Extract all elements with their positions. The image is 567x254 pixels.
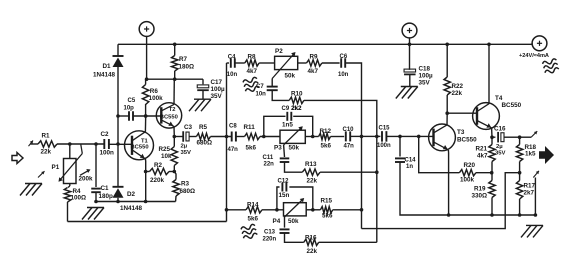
svg-text:35V: 35V (211, 93, 223, 100)
transistor T2 (156, 103, 181, 128)
wire top rail (118, 43, 532, 45)
svg-text:R5: R5 (199, 124, 208, 131)
svg-text:C14: C14 (405, 157, 417, 163)
junction supply 2 (408, 43, 412, 47)
svg-text:1N4148: 1N4148 (120, 205, 143, 212)
wire P3 to R12 (305, 136, 318, 138)
input ground (25, 183, 42, 185)
P4 wiper to C13 (284, 216, 286, 228)
resistor R18 (516, 145, 522, 162)
svg-text:D1: D1 (103, 63, 112, 70)
resistor R5 (196, 133, 210, 139)
wire C6 to bus A (345, 63, 361, 136)
wire C5 left (118, 115, 129, 117)
wire C5 right to T2 base (133, 115, 162, 117)
wire input to R1 (31, 143, 39, 145)
wavy mark other channel (output) (542, 58, 559, 74)
svg-text:100µ: 100µ (419, 72, 434, 79)
P2 wiper arrow (272, 54, 294, 79)
capacitor C5 (128, 111, 130, 121)
svg-text:C15: C15 (379, 125, 391, 131)
wire rail corner to D1 (117, 44, 119, 56)
wire R11 to P3 (260, 136, 280, 138)
svg-text:22k: 22k (41, 149, 52, 156)
resistor R7 (172, 56, 178, 72)
resistor R6 (142, 85, 148, 105)
svg-text:BC550: BC550 (160, 114, 178, 120)
svg-text:47n: 47n (344, 143, 355, 149)
svg-text:P4: P4 (273, 218, 281, 225)
wire bus A down (361, 136, 363, 228)
ground at output (526, 224, 543, 226)
svg-text:220n: 220n (263, 236, 277, 242)
output signal tick (532, 131, 538, 137)
svg-text:R14: R14 (247, 201, 259, 208)
wire bus B down (376, 136, 378, 242)
svg-text:100n: 100n (377, 143, 391, 149)
junction T3 emitter bottom (447, 213, 451, 217)
junction R19 bottom (490, 213, 494, 217)
svg-text:100Ω: 100Ω (71, 195, 87, 202)
wire C8 to R11 (236, 136, 245, 138)
svg-text:2k7: 2k7 (524, 189, 535, 196)
svg-text:R11: R11 (244, 124, 256, 131)
wire R7 bottom to T2 collector (174, 71, 176, 79)
capacitor C12 loop (277, 187, 280, 210)
wire R4 to bottom feedback rail (67, 202, 69, 222)
wire C3 to R5 (189, 136, 196, 138)
capacitor C1 lead (95, 144, 97, 187)
svg-text:BC550: BC550 (457, 136, 477, 143)
capacitor C12 (281, 183, 283, 192)
svg-text:5k6: 5k6 (322, 212, 333, 219)
junction tone network feed (225, 135, 229, 139)
resistor R11 (245, 133, 261, 139)
capacitor C15 (381, 131, 383, 142)
junction T1 emitter rail (144, 200, 148, 204)
svg-text:T2: T2 (169, 107, 176, 113)
resistor R22 (444, 77, 450, 95)
svg-text:C6: C6 (340, 54, 348, 60)
svg-text:1n5: 1n5 (282, 121, 293, 128)
wire feed to R14 (227, 209, 247, 211)
wire T3 emitter (447, 150, 449, 215)
wire C7 to R10 (272, 90, 289, 100)
power terminal circle 2 (402, 23, 417, 38)
svg-text:R9: R9 (310, 53, 319, 60)
wire R2 right (169, 171, 174, 173)
svg-text:R8: R8 (248, 53, 257, 60)
junction R21/R20/R19 (490, 171, 494, 175)
wire R15 to bus A (333, 209, 362, 211)
wire output bottom rail (449, 214, 536, 216)
resistor R19 (489, 181, 495, 198)
svg-text:100n: 100n (100, 150, 115, 157)
wavy mark other channel (treble) (243, 77, 260, 93)
resistor R1 (38, 141, 57, 147)
input signal screen tick (29, 141, 34, 147)
capacitor C9 (286, 112, 288, 121)
svg-text:R7: R7 (179, 56, 188, 63)
wire feedback return (362, 173, 521, 229)
wire T2 collector (173, 79, 175, 104)
svg-text:P1: P1 (52, 164, 60, 171)
capacitor C2 (103, 139, 105, 149)
svg-text:C3: C3 (184, 124, 193, 131)
resistor R8 (245, 60, 259, 66)
wire R10 to bus B (304, 100, 377, 136)
wire R7 top to rail (174, 44, 176, 55)
junction bus B R13 (375, 170, 379, 174)
svg-text:C2: C2 (101, 131, 110, 138)
wire C11 to R13 (285, 162, 303, 172)
wire C17 branch (175, 78, 203, 80)
wire R5 to feed node (211, 136, 232, 138)
svg-text:R12: R12 (320, 128, 332, 135)
svg-text:C11: C11 (263, 155, 274, 161)
junction R22 rail (445, 43, 449, 47)
svg-text:15n: 15n (279, 192, 290, 199)
wire feed node vertical (226, 63, 228, 222)
svg-text:C13: C13 (264, 229, 276, 235)
svg-text:4k7: 4k7 (308, 68, 319, 75)
resistor R9 (307, 60, 322, 66)
svg-text:180p: 180p (99, 193, 114, 200)
svg-text:C1: C1 (101, 185, 110, 192)
wire feed to C4 (227, 62, 230, 64)
junction R20 riser (417, 135, 421, 139)
wire R6 bottom (145, 104, 147, 116)
svg-text:4k7: 4k7 (247, 68, 258, 75)
svg-text:680Ω: 680Ω (197, 140, 213, 147)
wire C10 to bus (350, 135, 361, 137)
svg-text:50k: 50k (285, 73, 296, 80)
capacitor C6 (340, 58, 342, 68)
svg-text:R22: R22 (452, 83, 464, 90)
svg-text:220k: 220k (150, 177, 165, 184)
svg-text:680Ω: 680Ω (180, 188, 196, 195)
wire diode chain to base wire (117, 116, 119, 144)
wire R18 bottom (519, 162, 521, 173)
capacitor C10 (345, 131, 347, 141)
svg-text:R20: R20 (464, 162, 476, 169)
output screen tick (533, 171, 539, 178)
capacitor C17 (197, 85, 209, 88)
input screen tick to ground (38, 171, 45, 177)
wire R19 top (491, 173, 493, 181)
wire C16 to R18 node (504, 136, 519, 138)
wire C18 to ground (409, 74, 411, 86)
svg-text:C4: C4 (228, 54, 236, 60)
junction C1 top (94, 142, 98, 146)
svg-text:R17: R17 (524, 182, 536, 189)
capacitor C14 (395, 157, 405, 159)
svg-text:47n: 47n (228, 147, 239, 153)
svg-text:10n: 10n (256, 92, 267, 98)
svg-text:T4: T4 (495, 95, 503, 102)
svg-text:C10: C10 (343, 127, 355, 133)
potentiometer P3 (280, 130, 305, 143)
svg-text:5k6: 5k6 (246, 144, 257, 151)
capacitor C8 (231, 132, 233, 142)
junction P1 top (68, 142, 72, 146)
wire R20 to divider (476, 172, 492, 174)
ground at C18 (401, 86, 418, 88)
svg-text:R2: R2 (154, 162, 163, 169)
junction C12 loop right (311, 208, 315, 212)
wire T2 emitter (173, 126, 175, 136)
wire R3 top (174, 172, 176, 180)
svg-text:P3: P3 (274, 144, 282, 151)
svg-text:BC550: BC550 (131, 144, 149, 150)
svg-text:22k: 22k (307, 248, 318, 254)
input arrow (signal in) (12, 153, 23, 164)
P4 wiper arrow (284, 199, 303, 217)
svg-text:1n: 1n (406, 164, 413, 170)
output arrow (539, 146, 554, 164)
wire supply circle down (crosses rail) (146, 36, 148, 79)
wire R18 top (519, 137, 521, 144)
capacitor C7 (267, 86, 278, 88)
junction C12 loop left (275, 208, 279, 212)
svg-text:R13: R13 (305, 161, 317, 168)
svg-text:5k6: 5k6 (248, 215, 259, 222)
transistor T3 (429, 124, 456, 151)
capacitor C11 (280, 157, 290, 159)
wire rail to output terminal (531, 43, 533, 44)
wire R22 top to rail (446, 44, 448, 77)
wire output signal (520, 136, 532, 138)
wire R9 to C6 (322, 62, 340, 64)
svg-text:1N4148: 1N4148 (93, 72, 116, 79)
svg-text:R19: R19 (474, 185, 486, 192)
transistor T4 (473, 103, 500, 130)
wire P1 to R4 (69, 184, 71, 187)
wire D1 to C5 node (117, 67, 119, 116)
junction R2 emitter line (144, 170, 148, 174)
junction D1/C5 (116, 114, 120, 118)
capacitor C3 (electrolytic) (182, 131, 184, 142)
capacitor C16 (electrolytic) (497, 132, 499, 143)
wire bus to C15 (377, 135, 381, 137)
junction feed R14 (225, 208, 229, 212)
junction R17 bottom (518, 213, 522, 217)
junction bus A R15 (360, 208, 364, 212)
capacitor C18 (404, 69, 416, 72)
svg-text:100k: 100k (149, 95, 164, 102)
wire C18 lead (409, 44, 411, 70)
output terminal circle (532, 36, 547, 51)
svg-text:BC550: BC550 (502, 102, 522, 109)
svg-text:330Ω: 330Ω (472, 192, 488, 199)
diode D2 (113, 186, 124, 188)
potentiometer P2 (275, 56, 298, 69)
junction T4 collector rail (487, 43, 491, 47)
junction C1 bottom / ground (94, 200, 98, 204)
ground at C1 (87, 207, 104, 209)
wire supply 2 to rail (409, 38, 411, 44)
resistor R16 (304, 239, 319, 245)
svg-text:C8: C8 (229, 124, 237, 130)
svg-text:P2: P2 (275, 48, 283, 55)
wire C4 to R8 (235, 62, 245, 64)
diode D1 (113, 55, 124, 57)
wire C14 lead (399, 136, 401, 156)
svg-text:2µ: 2µ (181, 144, 188, 150)
svg-text:R25: R25 (159, 146, 171, 153)
svg-text:4k7: 4k7 (477, 152, 488, 159)
wire R8 to P2 (259, 62, 275, 64)
wire C14 to bottom rail (400, 162, 449, 215)
junction R6 base wire (144, 114, 148, 118)
wire T4 emitter (492, 128, 496, 137)
wire R6 top to supply node (145, 79, 147, 84)
wire T4 collector (488, 44, 490, 104)
resistor R13 (302, 169, 320, 175)
junction C9 loop left (262, 135, 266, 139)
wire C1 to node wire (95, 192, 97, 201)
svg-text:1k5: 1k5 (525, 151, 536, 158)
junction T3 coll / T4 base (445, 111, 449, 115)
svg-text:200k: 200k (79, 176, 94, 183)
svg-text:+24V/≈4mA: +24V/≈4mA (519, 53, 549, 59)
wire T3 collector (446, 113, 448, 125)
output screen line (534, 178, 536, 216)
svg-text:C18: C18 (419, 65, 431, 72)
svg-text:C5: C5 (128, 98, 136, 104)
capacitor C1 (91, 188, 101, 190)
junction R18/R17 (518, 171, 522, 175)
svg-text:2µ: 2µ (496, 144, 503, 150)
resistor R15 (320, 207, 332, 213)
junction C14 tap (398, 135, 402, 139)
svg-text:22n: 22n (264, 161, 275, 167)
wire C2 to T1 base (109, 143, 132, 145)
resistor R14 (246, 207, 262, 213)
wire R21 bottom (491, 162, 493, 173)
svg-text:35V: 35V (419, 79, 431, 86)
wire R19 bottom (491, 198, 493, 216)
wavy mark other channel (bass) (241, 224, 258, 240)
svg-text:C16: C16 (494, 125, 506, 132)
junction T4 emitter / R21 (490, 135, 494, 139)
junction output ground (534, 213, 538, 217)
wire R1 to C2/T1 base (57, 143, 104, 145)
resistor R2 (150, 168, 170, 174)
wire base wire to D2 (117, 144, 119, 187)
wire T1 emitter rail (96, 201, 176, 203)
svg-text:C9: C9 (282, 106, 290, 112)
wire D2 to emitter rail (117, 198, 119, 202)
wire R17 top (519, 173, 521, 181)
capacitor C13 (280, 228, 290, 230)
resistor R4 (64, 188, 70, 203)
svg-text:35V: 35V (495, 150, 506, 156)
svg-text:C17: C17 (211, 79, 223, 86)
P3 wiper arrow (284, 128, 302, 145)
svg-text:5k6: 5k6 (321, 142, 332, 149)
svg-text:R16: R16 (305, 234, 317, 241)
power terminal circle 1 (139, 22, 154, 37)
wire R2 left (146, 171, 150, 173)
wire T4 base (447, 112, 477, 114)
wire R20 riser (419, 136, 460, 172)
svg-text:R1: R1 (42, 133, 51, 140)
wire T1 emitter (144, 159, 146, 202)
junction T2 emitter / C3 (173, 135, 177, 139)
ground at C17 (194, 98, 211, 100)
wire bus A to B (362, 135, 377, 137)
svg-text:D2: D2 (127, 191, 136, 198)
svg-text:50k: 50k (288, 218, 299, 225)
wire R16 to bus B (319, 241, 377, 243)
junction C9 loop right (311, 135, 315, 139)
wire R14 to P4 (262, 209, 284, 211)
capacitor C4 (230, 58, 232, 68)
wire C13 to R16 (285, 233, 304, 242)
svg-text:100k: 100k (460, 176, 475, 183)
junction D2 bottom (116, 200, 120, 204)
wire R13 to bus B (320, 171, 377, 173)
potentiometer P4 (284, 203, 307, 216)
wire C17 to ground (202, 90, 204, 99)
wire R12 to C10 (331, 136, 345, 138)
svg-text:R15: R15 (321, 197, 333, 204)
junction R18 top (518, 135, 522, 139)
junction R25/R2/R3 (173, 170, 177, 174)
resistor R17 (516, 181, 522, 200)
potentiometer P1 lead (69, 144, 71, 159)
svg-text:2k2: 2k2 (292, 106, 303, 112)
svg-text:22k: 22k (452, 90, 463, 97)
junction T2 collector node (173, 77, 177, 81)
svg-text:180Ω: 180Ω (179, 63, 195, 70)
svg-text:10k: 10k (161, 153, 172, 160)
svg-text:C12: C12 (278, 178, 290, 184)
wire R17 bottom (519, 199, 521, 215)
wire C3 left (174, 136, 183, 138)
resistor R20 (459, 170, 476, 176)
wire R21 top (491, 137, 493, 144)
junction R7 rail (173, 43, 177, 47)
P1 adjust mark (86, 169, 90, 173)
svg-text:R10: R10 (291, 90, 303, 97)
wire R22 bottom (446, 95, 448, 113)
capacitor C9 loop (264, 116, 286, 136)
junction T1 collector (144, 114, 148, 118)
wire P2 to R9 (298, 62, 307, 64)
resistor R10 (289, 97, 304, 103)
resistor R12 (319, 133, 331, 139)
wire T1 collector (144, 116, 146, 132)
junction bus B mid (375, 135, 379, 139)
junction supply/R6 (145, 77, 149, 81)
resistor R21 (489, 145, 495, 162)
junction bus A mid (360, 135, 364, 139)
P3 wiper to C11 (283, 145, 286, 157)
P1 wiper arrow (81, 145, 83, 154)
svg-text:10n: 10n (227, 72, 238, 78)
svg-text:C7: C7 (256, 84, 264, 90)
wire R25 top (173, 137, 175, 147)
resistor R25 (171, 147, 177, 166)
svg-text:10p: 10p (124, 106, 135, 112)
wire P2 wiper to C7 (271, 79, 273, 87)
svg-text:T3: T3 (457, 129, 465, 136)
transistor T1 (125, 131, 154, 160)
potentiometer P1 (64, 159, 77, 184)
svg-text:R3: R3 (181, 181, 190, 188)
